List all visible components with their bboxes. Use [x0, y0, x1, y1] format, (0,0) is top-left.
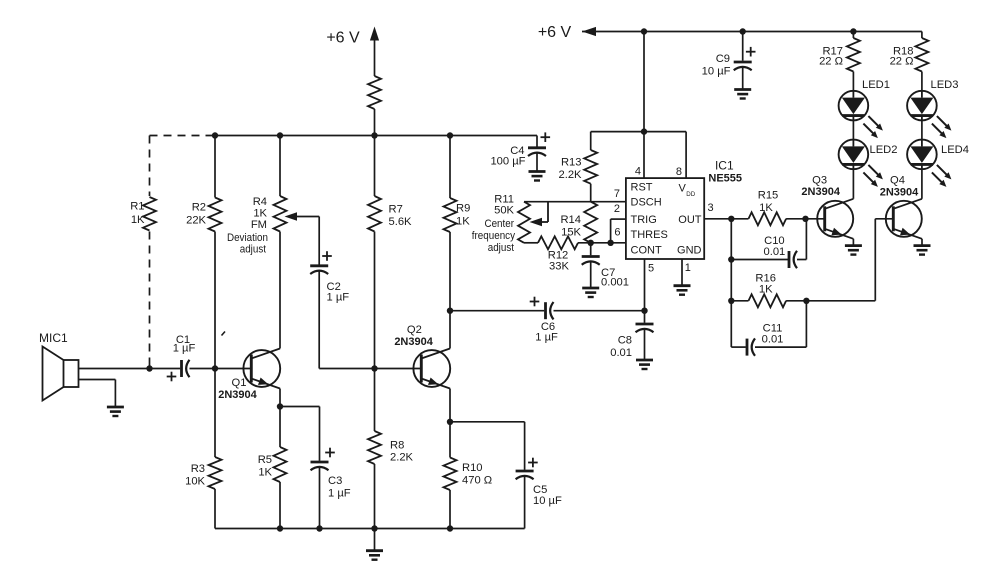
svg-text:10 µF: 10 µF	[702, 66, 731, 78]
svg-text:R5: R5	[258, 454, 272, 466]
svg-text:Q4: Q4	[890, 174, 905, 186]
svg-text:0.01: 0.01	[762, 334, 784, 346]
svg-text:1K: 1K	[456, 216, 470, 228]
svg-text:DSCH: DSCH	[631, 197, 662, 209]
svg-text:LED3: LED3	[931, 79, 959, 91]
svg-text:2N3904: 2N3904	[880, 187, 919, 199]
svg-text:33K: 33K	[549, 261, 569, 273]
svg-text:100 µF: 100 µF	[490, 156, 525, 168]
svg-text:LED4: LED4	[941, 144, 969, 156]
svg-text:1K: 1K	[759, 202, 773, 214]
svg-text:R1: R1	[130, 201, 144, 213]
svg-text:7: 7	[614, 188, 620, 200]
svg-text:10 µF: 10 µF	[533, 495, 562, 507]
svg-text:3: 3	[708, 202, 714, 214]
svg-text:1: 1	[685, 262, 691, 274]
svg-text:GND: GND	[677, 245, 702, 257]
svg-text:V: V	[679, 183, 687, 195]
svg-text:R13: R13	[561, 157, 582, 169]
svg-text:R7: R7	[389, 204, 403, 216]
svg-text:22K: 22K	[186, 215, 206, 227]
svg-text:adjust: adjust	[240, 243, 266, 256]
svg-text:0.01: 0.01	[610, 347, 632, 359]
svg-text:RST: RST	[631, 182, 653, 194]
svg-text:1K: 1K	[131, 214, 145, 226]
svg-text:THRES: THRES	[631, 229, 668, 241]
svg-text:R15: R15	[758, 190, 779, 202]
svg-text:22 Ω: 22 Ω	[819, 56, 843, 68]
svg-text:NE555: NE555	[708, 173, 742, 185]
svg-text:R2: R2	[192, 202, 206, 214]
svg-text:4: 4	[635, 166, 641, 178]
svg-text:10K: 10K	[185, 476, 205, 488]
svg-text:DD: DD	[686, 191, 695, 198]
svg-text:C8: C8	[618, 335, 632, 347]
svg-text:C3: C3	[328, 475, 342, 487]
svg-text:1 µF: 1 µF	[535, 332, 558, 344]
svg-text:0.01: 0.01	[764, 246, 786, 258]
svg-text:1 µF: 1 µF	[327, 292, 350, 304]
svg-text:15K: 15K	[561, 226, 581, 238]
svg-text:R8: R8	[390, 440, 404, 452]
svg-text:C9: C9	[716, 53, 730, 65]
svg-text:LED1: LED1	[862, 79, 890, 91]
svg-text:CONT: CONT	[631, 245, 662, 257]
svg-text:5.6K: 5.6K	[389, 216, 413, 228]
svg-text:1 µF: 1 µF	[328, 488, 351, 500]
svg-text:1K: 1K	[759, 283, 773, 295]
svg-text:1 µF: 1 µF	[173, 343, 196, 355]
svg-text:Center: Center	[484, 217, 514, 230]
svg-text:Q2: Q2	[407, 324, 422, 336]
svg-text:adjust: adjust	[488, 241, 514, 254]
svg-text:6: 6	[614, 227, 620, 239]
svg-text:R10: R10	[462, 462, 483, 474]
svg-text:IC1: IC1	[715, 159, 734, 173]
svg-text:MIC1: MIC1	[39, 331, 68, 345]
svg-text:1K: 1K	[253, 208, 267, 220]
svg-text:2N3904: 2N3904	[394, 336, 433, 348]
svg-text:Q3: Q3	[812, 174, 827, 186]
svg-text:LED2: LED2	[870, 144, 898, 156]
svg-text:50K: 50K	[494, 205, 514, 217]
svg-text:0.001: 0.001	[601, 277, 629, 289]
svg-text:FM: FM	[251, 219, 267, 231]
svg-text:Q1: Q1	[232, 377, 247, 389]
svg-text:1K: 1K	[258, 467, 272, 479]
svg-text:5: 5	[648, 263, 654, 275]
svg-text:2.2K: 2.2K	[558, 169, 582, 181]
svg-text:2: 2	[614, 203, 620, 215]
svg-text:R4: R4	[253, 196, 267, 208]
svg-text:22 Ω: 22 Ω	[890, 56, 914, 68]
svg-text:+6 V: +6 V	[538, 24, 572, 41]
svg-text:R14: R14	[560, 214, 581, 226]
svg-text:470 Ω: 470 Ω	[462, 475, 492, 487]
svg-text:2N3904: 2N3904	[801, 186, 840, 198]
svg-text:OUT: OUT	[678, 214, 702, 226]
svg-text:TRIG: TRIG	[631, 214, 657, 226]
svg-text:2N3904: 2N3904	[218, 389, 257, 401]
svg-text:R9: R9	[456, 203, 470, 215]
svg-text:+6 V: +6 V	[326, 30, 360, 47]
svg-text:R3: R3	[191, 463, 205, 475]
svg-text:8: 8	[676, 166, 682, 178]
svg-text:2.2K: 2.2K	[390, 452, 414, 464]
